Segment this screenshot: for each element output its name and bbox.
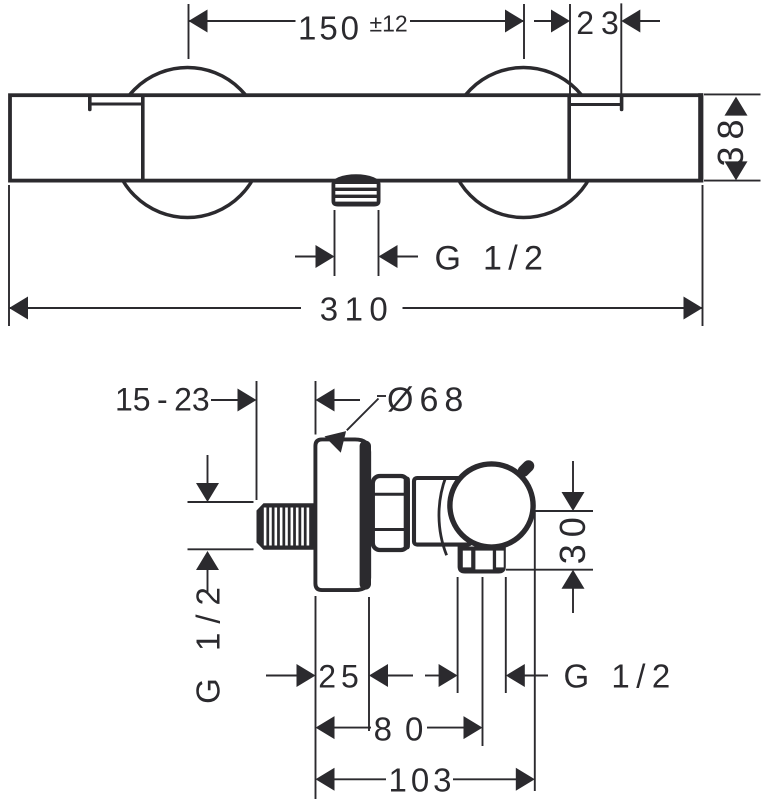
right mounting slot [569, 96, 621, 181]
label 38 (rotated) [710, 112, 751, 166]
shower outlet nut G 1/2 (below knob) [458, 547, 506, 574]
dimension 15-23 (extension + arrows) [211, 381, 360, 500]
svg-text:15 - 23: 15 - 23 [115, 382, 210, 418]
threaded inlet pipe G 1/2 (side view) [257, 503, 314, 549]
label 310 [320, 291, 395, 328]
dimension 25 (arrows) [266, 664, 413, 687]
svg-text:103: 103 [388, 762, 455, 799]
label G 1/2 front [435, 240, 550, 278]
label 150 [298, 10, 362, 47]
escutcheon left (front view circle) [113, 68, 263, 218]
cartridge flange arc behind knob [439, 477, 447, 556]
dimension 103 (arrows + lines) [316, 768, 535, 791]
temperature control knob (side view circle) [450, 464, 533, 547]
svg-text:G 1/2: G 1/2 [435, 240, 550, 278]
dimension 38 (extension lines + arrows) [704, 94, 761, 180]
svg-text:23: 23 [576, 5, 626, 41]
svg-text:G 1/2: G 1/2 [564, 658, 677, 695]
connection hex nut (side view) [373, 476, 408, 550]
svg-text:±12: ±12 [370, 11, 408, 37]
safety-stop lever on knob [522, 465, 529, 471]
dimension G 1/2 pipe (side view, extensions + arrows) [188, 455, 254, 592]
G 1/2 threaded stub (bottom centre of body) [332, 174, 381, 206]
dimension G 1/2 outlet (arrows) [425, 664, 548, 687]
svg-text:310: 310 [320, 291, 395, 328]
valve body (side view) [414, 478, 471, 545]
label 30 (rotated) [552, 510, 593, 564]
extension line outlet left (x=457.6) [457, 577, 459, 693]
dimension 80 (arrows + lines) [316, 716, 483, 739]
extension line escutcheon front face (x=369) [368, 597, 370, 731]
left mounting slot [90, 96, 143, 181]
extension line knob front (x=534.8) [534, 511, 536, 791]
svg-text:G 1/2: G 1/2 [190, 578, 227, 704]
label Ø68 [387, 381, 469, 419]
escutcheon right (front view circle) [449, 68, 599, 218]
label G 1/2 bottom [564, 658, 677, 695]
escutcheon disc thick right rim [360, 441, 371, 590]
svg-text:25: 25 [318, 659, 364, 695]
dimension 30 (extensions + arrows) [506, 461, 593, 613]
extension line outlet right (x=505.8) [505, 577, 507, 693]
dimension G 1/2 front (extension + arrows) [295, 210, 418, 276]
label ±12 [370, 11, 408, 37]
extension line escutcheon back face (x=315.5) [315, 596, 317, 799]
label 103 [388, 762, 455, 799]
label 23 [576, 5, 626, 41]
label G 1/2 left (rotated) [190, 578, 227, 704]
svg-text:150: 150 [298, 10, 362, 47]
svg-text:30: 30 [552, 510, 593, 564]
label 15-23 [115, 382, 210, 418]
dimension 310 (extension + dim lines) [9, 185, 703, 326]
svg-text:38: 38 [710, 112, 751, 166]
extension line outlet axis (x=482.5) [482, 577, 484, 746]
escutcheon disc (side view) [315, 439, 369, 590]
dimension 23 (extension + dim lines) [534, 3, 660, 94]
svg-text:Ø68: Ø68 [387, 381, 469, 419]
svg-text:80: 80 [374, 711, 437, 748]
hex nut thick right rim [404, 477, 410, 550]
mixer body (front view bar 310x38) [10, 93, 701, 182]
leader line Ø68 [325, 396, 387, 453]
label 25 [318, 659, 364, 695]
dimension 150 ±12 (extension + dim lines) [189, 4, 525, 59]
label 80 [374, 711, 437, 748]
